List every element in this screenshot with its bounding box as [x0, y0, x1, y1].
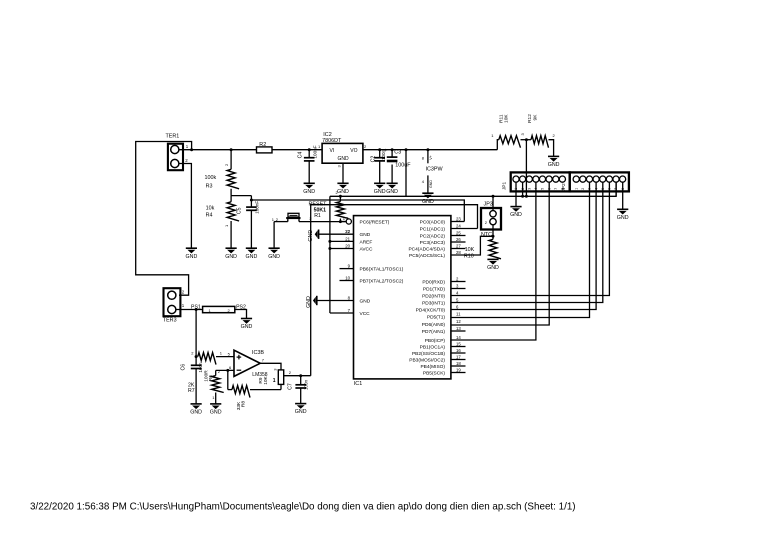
- node divider-C5: [250, 199, 253, 202]
- svg-text:R11: R11: [499, 114, 505, 123]
- svg-text:PD7(AIN1): PD7(AIN1): [422, 329, 446, 335]
- ground under TER1 pin2: [186, 248, 198, 260]
- resistor R9 10K: [258, 368, 283, 385]
- ground under C3: [386, 183, 398, 195]
- svg-text:R4: R4: [206, 212, 213, 218]
- wire ADC0 net divider to IC1 pin23: [251, 200, 464, 222]
- svg-text:PB7(XTAL2/TOSC2): PB7(XTAL2/TOSC2): [360, 278, 404, 284]
- svg-text:C2: C2: [371, 156, 377, 163]
- svg-text:27: 27: [456, 244, 461, 249]
- IC1 right pin stubs and labels: [408, 217, 465, 377]
- wire loop from TER1 top to TER3: [136, 142, 192, 296]
- node junction TER1 pin1: [190, 148, 193, 151]
- wire TER3 pin1 to PS1 node: [176, 309, 203, 311]
- svg-text:R12: R12: [527, 114, 533, 123]
- svg-text:VI: VI: [330, 148, 335, 154]
- op-amp power symbol IC3PW: [422, 150, 444, 194]
- svg-text:GND: GND: [360, 232, 371, 238]
- svg-text:IC3B: IC3B: [252, 350, 264, 356]
- svg-text:PD4(XCK/T0): PD4(XCK/T0): [416, 307, 446, 313]
- svg-text:PC4(ADC4/SDA): PC4(ADC4/SDA): [408, 246, 445, 252]
- svg-text:100uF: 100uF: [395, 163, 411, 169]
- svg-text:PC3(ADC3): PC3(ADC3): [420, 240, 446, 246]
- ground under PS2: [241, 319, 253, 331]
- svg-text:TER1: TER1: [166, 134, 180, 140]
- wire IC1 pin24 stub: [451, 228, 478, 230]
- wire JP2 pin8 to GND: [622, 182, 624, 209]
- terminal TER1: [166, 134, 189, 171]
- svg-text:PD3(INT1): PD3(INT1): [422, 300, 445, 306]
- svg-text:11: 11: [456, 312, 461, 317]
- svg-text:+: +: [384, 148, 387, 154]
- svg-text:PD2(INT0): PD2(INT0): [422, 293, 445, 299]
- resistor R3 100k: [205, 150, 240, 196]
- svg-text:GND: GND: [617, 215, 629, 221]
- svg-text:1: 1: [574, 188, 578, 190]
- wire JP1 pin4 to IC1 pin14: [451, 182, 536, 340]
- svg-text:GND: GND: [548, 162, 560, 168]
- svg-text:GND: GND: [374, 189, 386, 195]
- wire op-amp output: [260, 363, 281, 370]
- svg-text:R2: R2: [259, 142, 266, 148]
- svg-text:PB6(XTAL1/TOSC1): PB6(XTAL1/TOSC1): [360, 267, 404, 273]
- ground under R6: [210, 404, 222, 416]
- svg-text:19: 19: [456, 368, 461, 373]
- svg-text:PC6(/RESET): PC6(/RESET): [360, 219, 390, 225]
- wire R9 bottom to feedback: [280, 384, 282, 389]
- svg-text:12: 12: [456, 319, 461, 324]
- connector JP1: [501, 172, 569, 191]
- resistor R10 10K: [464, 239, 501, 259]
- svg-text:PD5(T1): PD5(T1): [427, 314, 446, 320]
- ground under C6: [190, 404, 202, 416]
- wire VCC rail down to bus: [405, 150, 407, 197]
- svg-text:R7: R7: [188, 388, 195, 394]
- svg-text:3/22/2020 1:56:38 PM C:\Users: 3/22/2020 1:56:38 PM C:\Users\HungPham\D…: [30, 502, 576, 513]
- wire inverting input node: [216, 369, 234, 371]
- svg-text:23: 23: [456, 217, 461, 222]
- svg-text:GND: GND: [510, 212, 522, 218]
- svg-text:7: 7: [554, 188, 558, 190]
- wire PS1 node down to R5/C6 node: [195, 310, 197, 357]
- svg-text:21: 21: [345, 236, 350, 241]
- resistor R8 33K feedback: [228, 386, 281, 411]
- op-amp IC3B LM358: [228, 350, 268, 378]
- resistor R12 9K: [527, 114, 555, 148]
- svg-text:VCC: VCC: [360, 311, 371, 317]
- svg-text:TER3: TER3: [163, 318, 177, 324]
- svg-text:10K: 10K: [504, 114, 510, 123]
- svg-text:GND: GND: [241, 324, 253, 330]
- microcontroller IC1 ATmega8: [354, 216, 451, 387]
- svg-text:25: 25: [456, 231, 461, 236]
- svg-text:GND: GND: [210, 410, 222, 416]
- svg-text:GND: GND: [225, 254, 237, 260]
- voltage regulator IC2 7806DT: [318, 132, 367, 168]
- wire JP1 pin2 to VCC bus: [522, 182, 524, 196]
- svg-text:18: 18: [456, 361, 461, 366]
- svg-text:GND: GND: [295, 409, 307, 415]
- ground under JP2 pin8: [617, 209, 629, 221]
- svg-text:15: 15: [456, 342, 461, 347]
- svg-text:R8: R8: [240, 401, 246, 407]
- svg-text:16: 16: [456, 348, 461, 353]
- svg-text:IC1: IC1: [354, 381, 362, 387]
- capacitor C6 100n: [180, 357, 203, 404]
- svg-text:PC0(ADC0): PC0(ADC0): [420, 219, 446, 225]
- wire ADC1 net op-amp out to IC1 pin24: [311, 205, 478, 376]
- svg-text:GND: GND: [186, 254, 198, 260]
- wire button to GND: [273, 222, 275, 249]
- wire VCC bus to IC1 pin7 AREF AVCC: [329, 196, 331, 313]
- resistor R4 10k: [206, 196, 240, 249]
- svg-text:17: 17: [456, 355, 461, 360]
- svg-text:C5: C5: [236, 207, 242, 214]
- svg-text:AVCC: AVCC: [360, 246, 374, 252]
- svg-text:GND: GND: [308, 230, 314, 242]
- wire JP2 pin6 to IC1 pin4: [451, 182, 610, 295]
- svg-text:2: 2: [581, 188, 585, 190]
- ground under C4: [303, 183, 315, 195]
- svg-text:PB0(ICP): PB0(ICP): [425, 338, 446, 344]
- svg-text:10K: 10K: [263, 375, 269, 384]
- ground under C5: [246, 248, 258, 260]
- svg-text:AREF: AREF: [360, 239, 373, 245]
- svg-text:26: 26: [456, 237, 461, 242]
- resistor R11 10K: [491, 114, 525, 148]
- svg-text:24: 24: [456, 224, 461, 229]
- wire JP2 pin3 to IC1 pin11: [451, 182, 590, 317]
- resistor R5 2K: [188, 351, 234, 394]
- capacitor C4 100nF: [298, 145, 318, 183]
- wire IC1 pin8 to GND left: [317, 300, 354, 302]
- svg-text:100n: 100n: [303, 379, 308, 390]
- svg-text:GND: GND: [246, 254, 258, 260]
- svg-text:PD6(AIN0): PD6(AIN0): [422, 322, 446, 328]
- ground under button: [268, 248, 280, 260]
- pushbutton S1 reset: [272, 213, 313, 222]
- svg-text:PD0(RXD): PD0(RXD): [422, 279, 445, 285]
- svg-text:C7: C7: [287, 383, 293, 390]
- ground sideways at IC1 pin8: [306, 296, 317, 308]
- ground under JP1 pin1: [510, 207, 522, 219]
- wire JP1 pin1 to GND: [515, 182, 517, 206]
- resistor R2: [257, 142, 273, 153]
- wire JP3 pin1 to VCC bus: [492, 196, 494, 211]
- svg-text:10K: 10K: [465, 247, 475, 253]
- IC1 left pin stubs and labels: [340, 215, 404, 317]
- wire IC2 pin3 to GND: [342, 163, 344, 183]
- ground IC3PW pin4: [422, 193, 434, 205]
- wire shunt to GND: [235, 310, 247, 319]
- svg-text:C3: C3: [394, 150, 401, 156]
- wire TER1 pin2 to GND: [179, 164, 191, 249]
- wire R11-R12 node to VCC bus: [525, 140, 527, 197]
- ground under C7: [295, 404, 307, 416]
- wire VCC bus: [330, 182, 616, 196]
- wire JP1 pin6 to IC1 pin12: [451, 182, 549, 325]
- svg-text:GND: GND: [190, 410, 202, 416]
- svg-text:20: 20: [345, 244, 350, 249]
- wire main rail VIN: [179, 149, 257, 151]
- ground under IC2: [337, 183, 349, 195]
- ground sideways at IC1 pin22: [308, 230, 319, 242]
- wire output tap to C7 and riser: [284, 375, 311, 377]
- svg-text:PB5(SCK): PB5(SCK): [423, 370, 446, 376]
- svg-text:100k: 100k: [205, 175, 217, 181]
- svg-text:R3: R3: [206, 184, 213, 190]
- svg-text:GND: GND: [422, 199, 434, 205]
- svg-text:28: 28: [456, 250, 461, 255]
- capacitor C5 100nF: [236, 200, 259, 248]
- wire JP2 pin7 to VCC bus (corner drawn in bus): [615, 182, 617, 196]
- terminal TER3: [163, 288, 185, 323]
- svg-text:5: 5: [541, 188, 545, 190]
- svg-text:100nF: 100nF: [313, 145, 318, 158]
- svg-text:PD1(TXD): PD1(TXD): [423, 286, 446, 292]
- svg-text:100nF: 100nF: [254, 201, 259, 214]
- wire JP2 pin5 to IC1 pin5: [451, 182, 603, 302]
- wire rail to R11: [497, 140, 499, 150]
- shunt PS1-PS2: [203, 306, 235, 313]
- svg-text:100n: 100n: [198, 362, 203, 373]
- svg-text:R6: R6: [208, 375, 214, 381]
- wire R10 to GND: [492, 258, 494, 261]
- wire reset line: [274, 221, 288, 223]
- svg-text:C4: C4: [298, 152, 304, 159]
- svg-text:JP2: JP2: [561, 183, 567, 192]
- svg-text:R10: R10: [464, 253, 474, 259]
- svg-text:14: 14: [456, 335, 461, 340]
- svg-text:JP1: JP1: [501, 182, 507, 191]
- svg-text:PB4(MISO): PB4(MISO): [420, 364, 445, 370]
- wire JP3 pin2 to NTC node: [492, 225, 494, 240]
- svg-text:1: 1: [273, 378, 276, 384]
- capacitor C2 100n: [371, 149, 386, 183]
- svg-text:13: 13: [456, 326, 461, 331]
- svg-text:GND: GND: [429, 180, 433, 188]
- svg-text:PB3(MOSI/OC2): PB3(MOSI/OC2): [409, 357, 445, 363]
- ground under R4: [225, 248, 237, 260]
- capacitor C7 100n: [287, 376, 308, 404]
- svg-text:GND: GND: [360, 298, 371, 304]
- svg-text:GND: GND: [303, 189, 315, 195]
- svg-text:GND: GND: [337, 189, 349, 195]
- svg-text:7806DT: 7806DT: [322, 138, 342, 144]
- svg-text:VO: VO: [350, 148, 357, 154]
- svg-text:GND: GND: [487, 265, 499, 271]
- svg-text:PC1(ADC1): PC1(ADC1): [420, 226, 446, 232]
- svg-text:GND: GND: [306, 296, 312, 308]
- svg-text:9K: 9K: [532, 114, 538, 121]
- svg-text:10k: 10k: [206, 205, 215, 211]
- svg-text:V+: V+: [429, 155, 433, 160]
- resistor R1 50K1 pullup: [314, 190, 349, 222]
- ground under C2: [374, 183, 386, 195]
- svg-text:GND: GND: [268, 254, 280, 260]
- svg-text:10: 10: [345, 276, 350, 281]
- svg-text:PB1(OC1A): PB1(OC1A): [420, 344, 446, 350]
- ground under R12: [548, 156, 560, 168]
- svg-text:R1: R1: [314, 213, 321, 219]
- wire IC1 pin23 stub (riser drawn above): [451, 221, 464, 223]
- wire R12 to GND: [549, 140, 554, 157]
- svg-text:22: 22: [345, 229, 350, 234]
- connector JP3 NTC: [481, 202, 501, 238]
- svg-text:3: 3: [528, 188, 532, 190]
- svg-text:IC3PW: IC3PW: [426, 166, 444, 172]
- wire IC1 pin22 to GND left: [319, 233, 354, 235]
- svg-text:PB2(SS/OC1B): PB2(SS/OC1B): [412, 351, 445, 357]
- connector JP2: [561, 172, 629, 191]
- svg-text:PC5(ADC5/SCL): PC5(ADC5/SCL): [409, 253, 445, 259]
- wire JP2 pin4 to IC1 pin6: [451, 182, 596, 309]
- svg-text:GND: GND: [386, 189, 398, 195]
- svg-text:C6: C6: [180, 364, 186, 371]
- capacitor C3 100uF polarized: [384, 148, 411, 183]
- wire IC1 pin28 to NTC node: [451, 236, 493, 255]
- resistor R6 100R: [204, 369, 224, 404]
- wire divider node: [231, 195, 251, 197]
- svg-text:JP3: JP3: [484, 202, 493, 208]
- svg-text:PC2(ADC2): PC2(ADC2): [420, 233, 446, 239]
- ground under R10: [487, 259, 499, 271]
- svg-text:GND: GND: [337, 156, 349, 162]
